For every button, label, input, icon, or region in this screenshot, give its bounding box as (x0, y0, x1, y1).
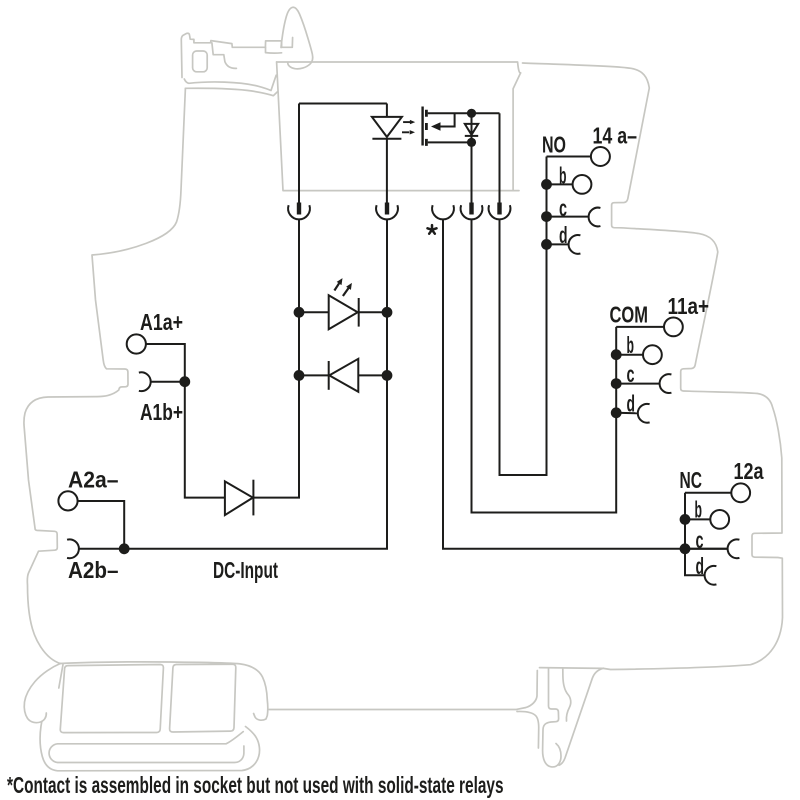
svg-text:A2a–: A2a– (68, 467, 119, 493)
svg-text:A1b+: A1b+ (140, 399, 183, 425)
svg-text:*Contact is assembled in socke: *Contact is assembled in socket but not … (7, 772, 503, 798)
svg-text:14 a–: 14 a– (593, 123, 638, 149)
svg-text:b: b (695, 497, 703, 523)
svg-text:NO: NO (542, 132, 566, 158)
svg-text:DC-Input: DC-Input (213, 557, 278, 583)
svg-text:NC: NC (680, 467, 703, 493)
svg-text:d: d (696, 553, 705, 579)
svg-text:b: b (559, 163, 567, 189)
svg-text:d: d (559, 222, 568, 248)
svg-text:11a+: 11a+ (668, 293, 710, 319)
svg-text:b: b (627, 332, 635, 358)
svg-text:A2b–: A2b– (68, 557, 119, 583)
svg-text:d: d (627, 391, 636, 417)
svg-text:COM: COM (610, 302, 649, 328)
svg-text:c: c (627, 361, 635, 387)
svg-text:12a: 12a (734, 458, 764, 484)
svg-text:c: c (559, 195, 567, 221)
svg-text:A1a+: A1a+ (140, 309, 183, 335)
svg-text:c: c (696, 527, 704, 553)
